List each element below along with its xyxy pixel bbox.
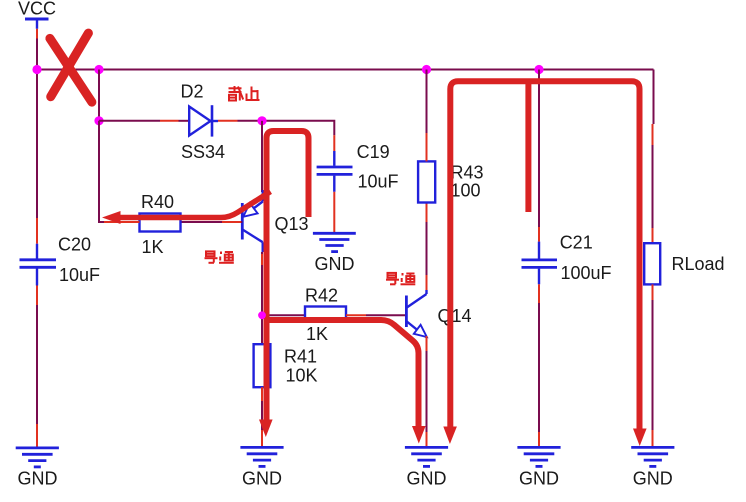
svg-text:C21: C21 xyxy=(560,233,593,253)
current path A4 right arrowhead (down) xyxy=(633,429,647,447)
wire red dash above C19 xyxy=(333,135,335,151)
ground GND4 xyxy=(405,447,448,488)
wire: VCC stem red dash xyxy=(36,29,38,39)
wire: Q14 emitter down to GND4 xyxy=(426,351,428,432)
wire red dash above C21 xyxy=(538,227,540,242)
label 截止 (cutoff) red text xyxy=(229,86,260,101)
wire: junction down to Q13 emitter xyxy=(261,121,263,192)
label 导通 (conducting) near Q14, red xyxy=(386,273,415,284)
wire: VCC stem purple section xyxy=(36,39,38,70)
resistor R40 xyxy=(140,192,181,257)
svg-text:GND: GND xyxy=(242,469,282,489)
wire: top power rail xyxy=(37,69,654,71)
svg-text:GND: GND xyxy=(633,469,673,489)
svg-text:Q14: Q14 xyxy=(438,306,472,326)
transistor Q14 (NPN) xyxy=(406,290,471,337)
wire: C21 branch from rail xyxy=(538,70,540,228)
current path A5: poke toward C21 xyxy=(525,84,531,212)
transistor Q13 (PNP) xyxy=(181,190,309,252)
wire red dash below C21 xyxy=(538,284,540,303)
wire: R42 row xyxy=(262,314,305,316)
capacitor C21 xyxy=(522,233,612,285)
wire: R43 up to rail xyxy=(426,70,428,134)
resistor R42 xyxy=(305,286,346,345)
wire: Q14 collector up to R43 xyxy=(426,275,428,290)
wire red dash below C20 xyxy=(36,286,38,306)
capacitor C20 xyxy=(20,235,101,286)
current path A3 arrowhead (down) xyxy=(412,426,426,444)
svg-text:C19: C19 xyxy=(357,142,390,162)
wire: junction down to R41 xyxy=(261,315,263,344)
junction dot (37,69.5) xyxy=(32,65,41,74)
resistor R41 xyxy=(254,344,318,387)
svg-text:10K: 10K xyxy=(286,366,318,386)
svg-text:R41: R41 xyxy=(284,347,317,367)
wire red dash above GND6 xyxy=(652,430,654,447)
wire red dash above GND5 xyxy=(538,432,540,447)
svg-text:VCC: VCC xyxy=(18,0,56,19)
wire: D2 anode wire xyxy=(99,120,160,122)
wire: branch x=99 from rail to D2 row xyxy=(98,70,100,121)
wire red lead C19 to GND2 xyxy=(333,192,335,232)
wire red dash before D2 xyxy=(160,120,179,122)
wire red dash above R43 xyxy=(426,133,428,161)
wire red dash above C20 xyxy=(36,218,38,244)
junction dot (539,69.5) xyxy=(534,65,543,74)
junction dot (262,315.3) xyxy=(258,311,266,319)
svg-text:10uF: 10uF xyxy=(59,265,100,285)
current path A4 left arrowhead (down) xyxy=(443,427,457,445)
current path A2: through emitter/base and R40, arrow left xyxy=(119,192,271,218)
current path A4: right big loop xyxy=(450,81,639,429)
ground GND5 xyxy=(517,447,560,488)
ground GND2 (under C19) xyxy=(313,233,356,274)
wire red dash below RLoad xyxy=(652,284,654,300)
wire: D2 cathode to junction xyxy=(238,120,263,122)
svg-text:C20: C20 xyxy=(58,235,91,255)
svg-text:SS34: SS34 xyxy=(181,142,225,162)
wire: Q14 emitter red lead xyxy=(426,336,428,351)
wire red dash above GND1 xyxy=(36,424,38,447)
wire: rail right corner down to RLoad xyxy=(653,70,655,125)
wire: x=99 down to R40 row, then right to R40 xyxy=(99,121,140,222)
power symbol VCC xyxy=(18,0,56,29)
svg-text:1K: 1K xyxy=(142,237,164,257)
current path A2 arrowhead (left) xyxy=(102,211,121,224)
ground GND6 xyxy=(631,447,674,488)
wire red dash left of R40 xyxy=(104,221,140,223)
svg-text:GND: GND xyxy=(18,469,58,489)
junction dot (99,120.8) xyxy=(94,116,103,125)
wire: R42 to Q14 base xyxy=(366,314,406,316)
ground GND1 xyxy=(16,448,59,489)
wire: R41 to GND3 xyxy=(261,401,263,430)
svg-text:RLoad: RLoad xyxy=(672,254,725,274)
diode D2 SS34 xyxy=(181,81,226,161)
resistor R43 xyxy=(418,161,483,202)
current path A1 arrowhead (down, above GND3) xyxy=(259,420,273,438)
svg-text:R40: R40 xyxy=(141,192,174,212)
svg-text:10uF: 10uF xyxy=(358,172,399,192)
wire: Q13 collector down to junction xyxy=(261,252,263,315)
svg-text:R43: R43 xyxy=(451,163,484,183)
current path A1: C19 loop down through Q13 collector chain xyxy=(267,131,309,421)
svg-text:1K: 1K xyxy=(306,324,328,344)
wire: left branch x=37 down to C20 xyxy=(36,70,38,223)
resistor RLoad xyxy=(644,243,724,284)
wire red dash above GND4 xyxy=(426,432,428,447)
svg-text:100uF: 100uF xyxy=(561,263,612,283)
svg-text:GND: GND xyxy=(519,469,559,489)
wire red dash above GND3 xyxy=(261,430,263,447)
junction dot (262,120.8) xyxy=(257,116,266,125)
capacitor C19 xyxy=(317,142,399,192)
wire: RLoad down to GND6 xyxy=(652,300,654,430)
svg-text:100: 100 xyxy=(451,181,481,201)
wire red dash after D2 cathode xyxy=(218,120,238,122)
wire red dash after R42 xyxy=(346,314,366,316)
wire: junction to C19 corner xyxy=(262,121,334,135)
label 导通 (conducting) near Q13, red xyxy=(205,251,234,262)
wire x=37 down to GND xyxy=(36,305,38,424)
current path A3: through R42, Q14 emitter, down to GND4 xyxy=(267,320,419,427)
svg-text:GND: GND xyxy=(315,254,355,274)
svg-text:D2: D2 xyxy=(181,81,204,101)
ground GND3 xyxy=(240,447,283,488)
wire red dash below R43 xyxy=(426,203,428,223)
wire: C21 down to GND5 xyxy=(538,303,540,432)
junction dot (99,69.5) xyxy=(94,65,103,74)
svg-text:GND: GND xyxy=(407,469,447,489)
wire red dash below R41 xyxy=(261,387,263,401)
svg-text:Q13: Q13 xyxy=(275,214,309,234)
svg-text:R42: R42 xyxy=(305,286,338,306)
wire red dash on RLoad branch xyxy=(652,124,654,145)
junction dot (426.5,69.5) xyxy=(422,65,431,74)
crossout X over VCC rail xyxy=(50,33,92,102)
